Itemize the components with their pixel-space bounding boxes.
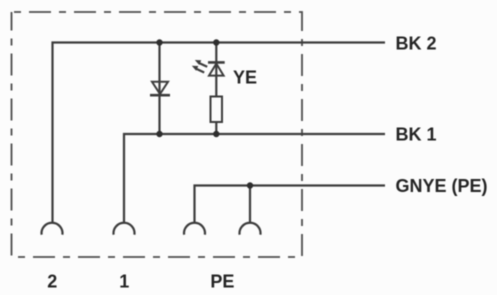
wire: right PE pin drop	[249, 186, 251, 223]
resistor R1	[211, 97, 223, 123]
socket contact pin 1	[114, 223, 135, 235]
diode V1 (suppressor, cathode down)	[150, 82, 170, 95]
svg-text:BK 2: BK 2	[396, 34, 437, 54]
svg-text:PE: PE	[210, 272, 234, 292]
connector housing outline (dash-dot frame)	[12, 12, 303, 257]
socket contact PE left	[184, 223, 205, 235]
svg-text:GNYE (PE): GNYE (PE)	[396, 176, 488, 196]
svg-text:2: 2	[47, 272, 57, 292]
wire: net GNYE PE (left PE riser + horizontal to label)	[195, 186, 386, 223]
wire: net BK 2 (pin 2 riser + top horizontal to label)	[53, 43, 386, 223]
socket contact PE right	[239, 223, 260, 235]
LED emission arrow 1	[195, 60, 207, 67]
socket contact pin 2	[42, 223, 63, 235]
LED emission arrow 2	[192, 66, 204, 73]
svg-text:BK 1: BK 1	[396, 125, 437, 145]
wire: diode branch vertical	[158, 43, 160, 135]
svg-text:1: 1	[119, 272, 129, 292]
junction dot: BK2/diode branch	[156, 39, 162, 45]
junction dot: GNYE/right PE pin	[247, 182, 253, 188]
svg-text:YE: YE	[233, 68, 257, 88]
junction dot: BK1/diode branch	[156, 131, 162, 137]
LED (yellow indicator, cathode up)	[208, 62, 225, 75]
wire: LED/resistor branch vertical	[215, 43, 217, 135]
wire: net BK 1 (pin 1 riser + horizontal to label)	[124, 134, 385, 223]
junction dot: BK2/LED branch	[213, 39, 219, 45]
junction dot: BK1/LED branch	[213, 131, 219, 137]
